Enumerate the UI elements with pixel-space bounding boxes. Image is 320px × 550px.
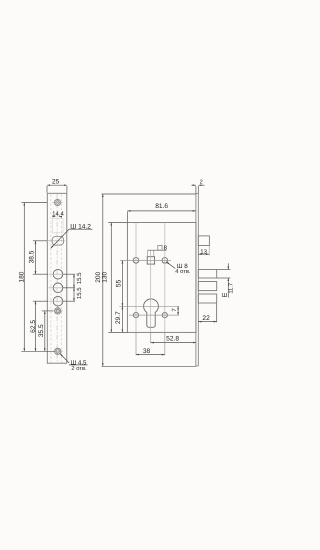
svg-text:38.5: 38.5 (28, 250, 35, 263)
svg-text:15.5: 15.5 (76, 272, 83, 284)
svg-text:13: 13 (200, 248, 207, 255)
svg-text:38: 38 (143, 348, 151, 355)
svg-text:2 отв.: 2 отв. (71, 365, 87, 372)
svg-text:Ш: Ш (222, 293, 227, 299)
svg-text:Ш 14.2: Ш 14.2 (70, 224, 91, 231)
svg-text:8: 8 (164, 244, 168, 251)
svg-text:25: 25 (52, 179, 60, 186)
svg-text:55: 55 (116, 279, 123, 287)
svg-text:4 отв.: 4 отв. (175, 269, 191, 275)
svg-text:130: 130 (101, 271, 108, 282)
svg-text:11.7: 11.7 (228, 283, 234, 293)
svg-text:52.8: 52.8 (166, 336, 179, 343)
svg-text:2: 2 (200, 180, 203, 186)
svg-text:180: 180 (18, 271, 25, 282)
svg-text:81.6: 81.6 (155, 203, 168, 210)
svg-text:35.5: 35.5 (38, 324, 45, 337)
svg-text:14.4: 14.4 (52, 210, 64, 217)
svg-text:7: 7 (171, 308, 178, 312)
svg-text:29.7: 29.7 (115, 311, 122, 324)
svg-text:22: 22 (202, 315, 210, 322)
svg-text:62.5: 62.5 (30, 320, 37, 333)
svg-text:15.5: 15.5 (76, 287, 83, 299)
